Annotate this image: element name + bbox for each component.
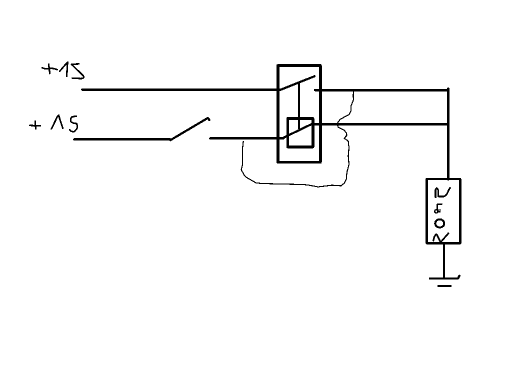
relay K1 actuator link	[298, 84, 300, 129]
wire W3: switch to relay coil	[210, 137, 283, 139]
neon lamp label letter E	[435, 204, 442, 213]
relay K1 coil diagonal	[282, 123, 313, 138]
neon lamp label letter N	[433, 233, 448, 242]
switch S1 blade	[170, 118, 209, 140]
neon lamp label letter N	[436, 188, 451, 198]
ground GND bar 2	[438, 285, 450, 287]
wire W6: right bus vertical down to lamp	[447, 89, 450, 179]
wire W1: +15 to relay contact (left)	[82, 88, 279, 90]
wire W5: relay coil to right bus (lower)	[313, 123, 448, 126]
relay K1 outer case	[278, 66, 321, 163]
ground GND bar 1	[430, 276, 460, 279]
wire W2: +15 to switch	[74, 138, 170, 140]
freehand annotation loop around coil circuit	[241, 91, 354, 187]
relay K1 contact arm	[279, 76, 315, 90]
neon lamp DS1 body	[427, 179, 461, 243]
relay K1 coil box	[288, 118, 313, 146]
label +15 (bottom supply)	[30, 115, 77, 132]
wire W4: relay contact to right bus (top)	[315, 89, 448, 91]
label +15 (top supply)	[42, 62, 83, 78]
neon lamp label letter O	[435, 219, 444, 227]
wire W7: lamp to ground	[443, 244, 445, 279]
